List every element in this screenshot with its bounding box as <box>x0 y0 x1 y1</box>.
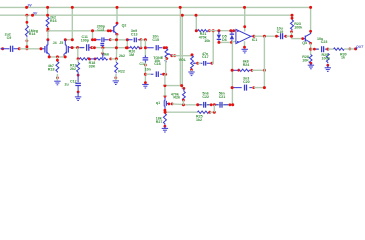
junction rail1 x115.8 <box>116 6 119 9</box>
svg-text:VOL: VOL <box>179 58 187 62</box>
svg-text:9V: 9V <box>28 4 33 8</box>
junction R23 bottom <box>290 30 293 33</box>
pin dot R16 bottom <box>47 28 50 31</box>
junction mid row x116 <box>115 46 118 49</box>
junction C16 right 1 <box>162 73 165 76</box>
wire Q2 emitter down <box>115 35 118 59</box>
wire C17 node riser <box>212 31 213 64</box>
junction J4 source <box>48 55 51 58</box>
svg-text:R18: R18 <box>48 68 55 72</box>
wire J5 drain link <box>65 39 72 41</box>
transistor Q3 <box>304 33 311 44</box>
svg-text:J5: J5 <box>59 41 63 45</box>
pin dot R23 top <box>291 17 294 20</box>
pin dot R21 right <box>208 29 211 32</box>
resistor R28 10K emitter load <box>309 55 312 64</box>
pin dot OUT <box>354 47 357 50</box>
junction drain pin J5 <box>64 38 67 41</box>
svg-text:R22: R22 <box>118 70 125 74</box>
wire C14 bottom vertical <box>144 63 146 84</box>
potentiometer VOL 10k <box>191 56 197 70</box>
pin dot Q1 gate 2 <box>171 103 174 106</box>
wire J5 gate row <box>71 47 84 49</box>
svg-text:R16: R16 <box>50 19 57 23</box>
pin x102.8 blue <box>102 53 104 58</box>
wire wiper row to VOL <box>172 55 192 57</box>
capacitor C14 <box>143 55 149 62</box>
wire Q2 base node drop x92.5 <box>92 31 94 40</box>
wire plus input stub <box>232 41 236 44</box>
junction C14 gnd <box>144 81 147 84</box>
junction pair right top <box>139 38 142 41</box>
svg-text:R26: R26 <box>173 95 180 99</box>
transistor J5 JFET mirrored <box>64 40 71 56</box>
junction J5 gate 1 <box>71 46 74 49</box>
junction C14 bottom <box>144 64 147 67</box>
wire mid row to pair <box>92 47 128 49</box>
junction pair left top <box>126 38 129 41</box>
wire rail bridge x47.6 <box>47 7 49 17</box>
junction rail1 x310.6 <box>309 6 312 9</box>
junction node B top <box>144 38 147 41</box>
resistor R27 18k <box>163 113 166 125</box>
junction J5 gate 2 <box>76 46 79 49</box>
pin dot TONE wiper <box>170 54 173 57</box>
wire output column vertical <box>263 36 265 87</box>
svg-text:C20: C20 <box>243 80 250 84</box>
junction output column C20 <box>263 86 266 89</box>
resistor R24 6k8 <box>234 69 251 71</box>
junction C17 right <box>211 62 214 65</box>
wire pair to node B <box>141 39 146 41</box>
svg-text:2k2: 2k2 <box>119 54 125 58</box>
svg-text:5k6: 5k6 <box>103 52 109 56</box>
capacitor C19 10u <box>278 33 285 39</box>
resistor R22 <box>115 62 118 73</box>
pin dot R14 bottom <box>26 39 29 42</box>
wire y85 row <box>165 86 184 89</box>
wire VOL bottom to ground <box>191 70 193 72</box>
wire rail1 drop x180.2 <box>179 7 181 85</box>
svg-text:C13: C13 <box>97 28 104 32</box>
junction riser top <box>212 29 215 32</box>
capacitor C12 2u2 <box>75 73 81 91</box>
junction R25 row left <box>164 111 167 114</box>
junction tail tap <box>56 55 59 58</box>
pin dot Q3 collector <box>309 30 312 33</box>
svg-text:1M: 1M <box>129 53 134 57</box>
potentiometer TONE 10k <box>165 49 171 63</box>
junction R21 left <box>195 29 198 32</box>
junction rail2 x182.4 <box>181 14 184 17</box>
svg-text:R24: R24 <box>243 63 250 67</box>
wire Q3 base row <box>292 38 304 40</box>
wire out row <box>311 48 319 50</box>
junction output column R24 <box>263 69 266 72</box>
wire R25 riser <box>213 105 215 112</box>
pin dot Q3 emitter <box>309 42 312 45</box>
ground symbol C12 <box>75 92 81 101</box>
wire output row <box>254 35 278 37</box>
ground symbol VOL <box>188 72 194 76</box>
wire C16 right up to TONE <box>165 59 168 75</box>
wire input row <box>19 48 41 50</box>
capacitor C11 100p <box>80 44 92 51</box>
junction C20 left <box>231 86 234 89</box>
wire R26 to caps row <box>182 100 184 105</box>
junction rail1 x180.2 <box>179 6 182 9</box>
resistor R21 470k <box>198 30 209 32</box>
junction minus row x230.8 <box>229 29 232 32</box>
pin dot Q1 gate 1 <box>168 103 171 106</box>
junction R18 mid 2 <box>94 58 97 61</box>
svg-text:100K: 100K <box>322 57 331 61</box>
wire emitter column to R22 <box>115 59 117 62</box>
svg-text:C16: C16 <box>154 62 161 66</box>
pin dot Q2 emitter <box>116 33 119 36</box>
junction C23 left <box>313 48 316 51</box>
resistor R29 100K <box>326 53 329 63</box>
junction minus row x218.9 <box>217 29 220 32</box>
junction J5 drain link <box>71 38 74 41</box>
svg-text:33K: 33K <box>89 65 96 69</box>
junction caps row x197.7 <box>196 103 199 106</box>
transistor J4 JFET <box>42 40 49 56</box>
wire Q1 gate to caps row <box>172 103 183 106</box>
svg-text:2u: 2u <box>65 83 69 87</box>
diode D5 <box>217 31 221 43</box>
junction C19 left <box>275 35 278 38</box>
wire R16 to J4 drain <box>47 31 49 40</box>
pin dot R28 bottom <box>310 62 313 65</box>
junction C23 right / R29 top <box>326 48 329 51</box>
junction mid row x126.3 <box>125 46 128 49</box>
resistor R16 2k2 <box>46 17 49 27</box>
wire C16 right down <box>164 74 166 85</box>
junction base node <box>91 29 94 32</box>
ground symbol R28 <box>308 63 314 69</box>
junction rail2 x32.5 <box>31 14 34 17</box>
svg-text:1k: 1k <box>341 56 345 60</box>
wire R19 branch <box>77 59 79 63</box>
svg-text:R14: R14 <box>29 32 36 36</box>
resistor R14 1Meg <box>25 26 28 38</box>
resistor R23 100k <box>291 20 294 31</box>
wire R23 node vertical <box>291 32 293 39</box>
junction out row left <box>309 48 312 51</box>
wire pair right vertical <box>140 40 142 48</box>
junction bridge rail2 <box>46 14 49 17</box>
wire R14 branch vertical <box>26 15 28 25</box>
pin input terminal <box>1 47 4 50</box>
pin dot R27 top <box>164 109 167 112</box>
wire 9V rail 2 <box>0 14 292 16</box>
pin dot R17 top <box>56 59 59 62</box>
junction C16 left node <box>144 73 147 76</box>
wire op-amp V- down <box>244 41 246 48</box>
junction R25 right <box>208 111 211 114</box>
junction C20 right pin <box>252 86 255 89</box>
svg-text:J4: J4 <box>53 41 57 45</box>
ground symbol tail <box>54 81 60 85</box>
svg-text:D6: D6 <box>222 38 227 42</box>
wire cap row to pair <box>110 39 127 41</box>
junction diode row left <box>217 41 220 44</box>
junction caps row x211.2 <box>210 103 213 106</box>
junction rail1 x72.3 <box>71 6 74 9</box>
capacitor C17 47n <box>201 61 211 66</box>
junction R18 mid 1 <box>88 58 91 61</box>
wire wiper to C17 <box>198 62 201 64</box>
wire Q3 emitter down <box>310 43 312 54</box>
junction C15 right 1 <box>163 46 166 49</box>
svg-text:C19: C19 <box>277 30 284 34</box>
capacitor C20 3n3 <box>234 85 253 91</box>
pin dot R29 bottom <box>326 64 329 67</box>
svg-text:C15: C15 <box>152 38 159 42</box>
wire R14 to input row <box>26 38 28 49</box>
junction R16 node <box>46 29 49 32</box>
junction diode row right <box>230 41 233 44</box>
junction rail1 x244.5 <box>243 6 246 9</box>
svg-text:C12: C12 <box>70 80 77 84</box>
pin R18 mid blue <box>91 58 97 60</box>
pin dot VOL bottom <box>190 69 193 72</box>
junction drain pin J4 <box>46 38 49 41</box>
junction R26 bottom <box>182 99 185 102</box>
svg-text:OUT: OUT <box>356 45 364 49</box>
ground symbol R29 <box>325 65 331 71</box>
junction J5 source <box>64 55 67 58</box>
wire tail stub <box>56 57 58 62</box>
junction emitter column y58.9 <box>115 57 118 60</box>
svg-text:10K: 10K <box>302 58 309 62</box>
svg-text:R27: R27 <box>156 120 163 124</box>
svg-text:100k: 100k <box>294 25 302 29</box>
wire J4 drain to Q2 base <box>48 30 112 32</box>
capacitor C9 2u2 <box>0 46 18 52</box>
junction minus row x233.7 <box>232 29 235 32</box>
pin dot TONE bottom <box>165 57 168 60</box>
wire Q1 drain up <box>164 86 166 97</box>
resistor R18a 33K <box>80 58 91 60</box>
pin dot VOL top <box>191 53 194 56</box>
wire feedback drop x77.8 <box>77 48 79 59</box>
pin dot V- <box>243 46 246 49</box>
wire C23 to R30 <box>328 48 334 50</box>
resistor R26 470k <box>182 88 185 100</box>
pin dot C9 right <box>18 47 21 50</box>
junction rail1 x26.6 <box>25 6 28 9</box>
junction mid row x102.9 <box>101 46 104 49</box>
wire rail1 drop x244.5 op-amp V+ <box>244 7 246 31</box>
svg-text:C21: C21 <box>219 95 226 99</box>
resistor R30 1k <box>334 48 345 50</box>
pin dot C13a right <box>109 38 112 41</box>
capacitor C15 10n <box>147 45 163 50</box>
junction R18b right <box>109 58 112 61</box>
junction R14 input row <box>26 45 29 48</box>
svg-text:C23: C23 <box>321 40 328 44</box>
junction rail2 x26.9 <box>25 14 28 17</box>
junction caps row x214.3 <box>213 103 216 106</box>
wire feedback row y58.9 <box>78 58 80 60</box>
svg-text:10n: 10n <box>145 68 151 72</box>
junction y85 left <box>163 84 166 87</box>
junction R30 right <box>348 48 351 51</box>
resistor R20 <box>129 47 142 49</box>
junction C15 right 2 / TONE top <box>165 46 168 49</box>
pin dot VOL wiper <box>196 62 199 65</box>
svg-text:2k2: 2k2 <box>70 67 76 71</box>
wire R22 to ground <box>115 74 117 80</box>
resistor R19 2k2 <box>77 63 80 73</box>
capacitor C23 10u <box>316 46 327 52</box>
capacitor C21 56n <box>216 102 229 108</box>
pin dot C11 right <box>90 46 93 49</box>
junction bridge rail1 <box>46 6 49 9</box>
junction R25 riser bottom <box>213 111 216 114</box>
svg-text:C17: C17 <box>202 55 209 59</box>
pin dot Q2 base 2 <box>109 29 112 32</box>
wire R18b to emitter column <box>111 58 116 60</box>
wire C16 row <box>145 73 150 75</box>
junction feedback row left <box>77 57 80 60</box>
svg-text:Q4: Q4 <box>302 41 307 45</box>
wire rail1 drop x115.8 Q2 collector <box>116 7 118 23</box>
capacitor vertical x102.3 <box>100 43 104 46</box>
junction y85 x182.4 <box>180 84 183 87</box>
resistor R17 4k7 tail <box>56 62 59 73</box>
svg-text:470k: 470k <box>199 35 207 39</box>
diode D6 <box>230 31 234 43</box>
wire node B vertical <box>144 40 146 57</box>
pin op-amp output <box>251 35 254 37</box>
wire feedback column x232.4 <box>231 42 233 104</box>
junction cap row x116 <box>115 38 118 41</box>
resistor R18b <box>96 58 107 60</box>
junction R24 right pin <box>251 69 254 72</box>
svg-text:100p: 100p <box>81 38 90 42</box>
capacitor C13b <box>127 38 141 43</box>
pin dot C13a left <box>94 38 97 41</box>
junction C19 right <box>285 35 288 38</box>
pin dot Q2 base <box>107 29 110 32</box>
pin dot Q1 drain <box>164 95 167 98</box>
transistor Q1 JFET <box>164 97 168 110</box>
ground symbol R22 <box>113 81 119 85</box>
pin dot R24 left <box>237 69 240 72</box>
junction output x263.4 <box>263 35 266 38</box>
wire rail1 drop x310.6 Q3 collector <box>310 7 312 33</box>
wire R25 row <box>165 111 197 113</box>
wire rail2 drop x182.4 <box>181 15 183 85</box>
wire sources row <box>49 56 65 58</box>
junction pair left bottom <box>126 46 129 49</box>
svg-text:IC1: IC1 <box>252 38 258 42</box>
wire C20 to output column <box>254 87 265 89</box>
wire x102.8 drop <box>102 48 104 54</box>
svg-text:Q2: Q2 <box>122 23 127 27</box>
wire R25 to riser <box>210 111 215 113</box>
pin dot R17 bottom <box>56 76 59 79</box>
transistor Q2 <box>110 24 117 35</box>
capacitor C13a 200p <box>96 37 109 42</box>
svg-text:1k2: 1k2 <box>196 118 202 122</box>
pin dot R22 bottom <box>114 76 117 79</box>
wire rail2 drop x196 <box>195 15 197 31</box>
junction rail2 x292 <box>291 14 294 17</box>
pin dot Q2 collector <box>116 22 119 25</box>
wire 9V rail 1 <box>0 6 311 8</box>
wire caps row y104.8 <box>183 104 232 106</box>
wire rail1 drop x72.3 <box>71 7 73 39</box>
pin dot Q3 base <box>301 37 304 40</box>
pin OUT stub <box>356 48 358 49</box>
wire C19 to R23 node <box>286 35 292 37</box>
resistor-cap pair left vertical <box>126 40 128 48</box>
svg-text:q1: q1 <box>156 101 160 105</box>
wire rail2 drop x292 R23 <box>291 15 293 20</box>
junction output <box>252 35 255 38</box>
pin dot R19 bottom <box>77 74 80 77</box>
wire R17 to ground <box>56 74 58 81</box>
pin dot J4 gate <box>40 47 43 50</box>
junction pair right bottom <box>139 46 142 49</box>
pin dot R14 top <box>26 21 29 24</box>
junction cap row left <box>91 38 94 41</box>
junction caps row right <box>231 103 234 106</box>
wire minus input row <box>209 30 236 32</box>
junction R23 C19 node <box>290 35 293 38</box>
junction caps row x183.4 <box>182 103 185 106</box>
pin dot C12 bottom <box>77 91 80 94</box>
resistor R25 1k2 <box>198 111 209 113</box>
junction x102.7 low <box>101 52 104 55</box>
capacitor C22 5n6 <box>199 102 210 108</box>
svg-text:10k: 10k <box>204 39 210 43</box>
junction C16 right 2 <box>164 73 167 76</box>
wire R24 to output column <box>252 69 265 71</box>
junction caps row x229.9 <box>229 103 232 106</box>
junction C15 left <box>144 46 147 49</box>
wire R30 to OUT <box>344 48 356 50</box>
svg-text:C13: C13 <box>131 32 138 36</box>
svg-text:C9: C9 <box>7 36 12 40</box>
ground symbol C14 <box>142 84 148 88</box>
pin dot op-amp V+ <box>243 25 246 28</box>
junction R26 top <box>183 87 186 90</box>
junction mid row x94.4 <box>93 46 96 49</box>
junction rail2 x196 <box>195 14 198 17</box>
capacitor C16 <box>151 71 163 77</box>
junction R24 left <box>231 69 234 72</box>
junction wiper row <box>173 54 176 57</box>
wire diode bottom row <box>219 41 233 43</box>
pin dot R27 bottom <box>164 125 167 128</box>
op-amp IC1 <box>236 29 251 43</box>
ground symbol R27 <box>162 126 168 132</box>
ground symbol op-amp <box>242 49 248 53</box>
svg-text:C22: C22 <box>202 95 209 99</box>
